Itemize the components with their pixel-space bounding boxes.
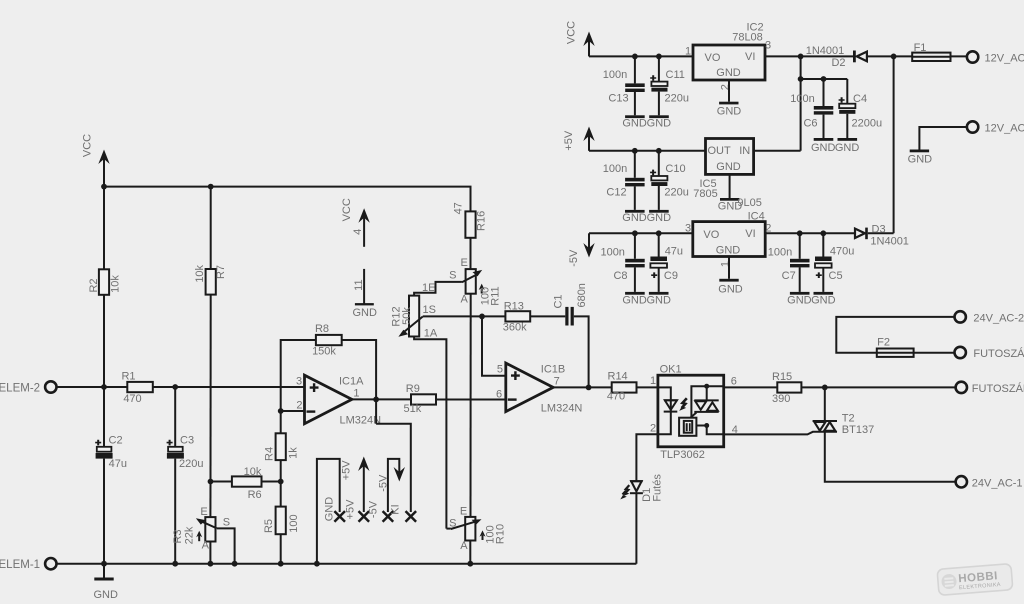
svg-text:R16: R16 (476, 211, 488, 231)
potentiometer R12 50k (391, 282, 483, 529)
node C6 (821, 76, 827, 82)
svg-text:GND: GND (811, 294, 836, 306)
wire R11 A down to R10 E (470, 294, 472, 517)
svg-text:-5V: -5V (568, 249, 580, 267)
svg-text:GND: GND (647, 212, 672, 224)
svg-text:5: 5 (497, 364, 503, 376)
terminal ELEM-1 (0, 558, 57, 571)
svg-text:+5V: +5V (341, 460, 353, 481)
resistor R6 10k (211, 466, 281, 501)
node IC1A output (373, 397, 379, 403)
svg-text:VO: VO (703, 229, 719, 241)
svg-text:VCC: VCC (566, 21, 578, 44)
svg-text:7805: 7805 (693, 188, 717, 200)
svg-text:ELEM-1: ELEM-1 (0, 559, 40, 571)
resistor R7 10k (194, 187, 227, 482)
svg-text:A: A (202, 540, 210, 552)
svg-text:R2: R2 (88, 278, 100, 292)
regulator IC4 79L05 (685, 210, 771, 267)
svg-text:-5V: -5V (377, 474, 389, 492)
svg-text:GND: GND (716, 245, 741, 257)
ground pin11 of IC1 (352, 269, 377, 319)
OK1 internal light arrow (679, 398, 687, 411)
node C2 bottom (101, 561, 107, 567)
svg-text:360k: 360k (503, 322, 527, 334)
svg-text:GND: GND (93, 589, 118, 601)
capacitor C8 100n (600, 233, 644, 292)
node C8 junction (632, 230, 638, 236)
svg-text:F1: F1 (914, 42, 927, 54)
svg-text:GND: GND (352, 307, 377, 319)
power arrow +5V test (341, 457, 370, 513)
svg-text:10k: 10k (110, 275, 122, 293)
svg-text:22k: 22k (184, 526, 196, 544)
power arrow -5V test (377, 459, 405, 512)
svg-text:IC1A: IC1A (339, 375, 364, 387)
op-amp IC1A LM324N (296, 375, 381, 426)
svg-text:1: 1 (353, 387, 359, 399)
wire junction to R3 E (209, 482, 211, 518)
svg-text:220u: 220u (179, 458, 203, 470)
svg-text:GND: GND (811, 142, 836, 154)
svg-text:100n: 100n (790, 93, 814, 105)
node C5 junction (820, 230, 826, 236)
svg-text:IC1B: IC1B (541, 364, 565, 376)
terminal 12V_AC-1 (967, 121, 1024, 134)
svg-text:1A: 1A (424, 328, 438, 340)
svg-text:C11: C11 (666, 69, 685, 81)
svg-text:390: 390 (772, 393, 790, 405)
trimmer R3 22k (172, 506, 235, 564)
capacitor C11 220u (650, 56, 689, 115)
svg-text:VCC: VCC (341, 198, 353, 221)
ground below C11 (647, 115, 672, 129)
wire IC1A pin2 stub (281, 410, 305, 412)
svg-text:S: S (449, 517, 456, 529)
wire IC5 IN to +12V rail (754, 150, 801, 152)
regulator IC2 78L08 (685, 22, 771, 91)
svg-text:ELEM-2: ELEM-2 (0, 383, 40, 395)
svg-text:24V_AC-1: 24V_AC-1 (972, 477, 1023, 489)
ground below C9 (646, 292, 671, 307)
wire IC1B output (553, 386, 612, 388)
svg-text:D3: D3 (872, 224, 886, 236)
svg-text:24V_AC-2: 24V_AC-2 (973, 312, 1024, 324)
capacitor C3 220u (167, 387, 204, 564)
diode D3 1N4001 (855, 224, 909, 248)
wire D3 up to 12V node (893, 56, 895, 233)
terminal FUTOSZAL-1 (956, 382, 1024, 395)
svg-text:C2: C2 (109, 435, 123, 447)
svg-text:C9: C9 (664, 270, 678, 282)
node D2-F1 junction (891, 54, 897, 60)
node R12 wiper / R13 junction (479, 314, 485, 320)
svg-text:GND: GND (622, 294, 647, 306)
svg-text:A: A (461, 293, 469, 305)
svg-text:GND: GND (908, 153, 933, 165)
capacitor C5 470u (reversed electrolytic) (815, 233, 854, 292)
node R3 S (232, 561, 238, 567)
net +5V (power arrow) (563, 127, 595, 151)
svg-text:6: 6 (496, 389, 502, 401)
ground IC4 pin1 (718, 257, 743, 296)
svg-text:R5: R5 (263, 519, 275, 533)
node C11 junction (656, 54, 662, 60)
svg-text:FUTOSZÁL: FUTOSZÁL (972, 382, 1024, 395)
svg-text:R3: R3 (172, 529, 184, 543)
net -5V (power arrow down) (568, 233, 595, 266)
trimmer R11 100 (414, 257, 501, 305)
svg-text:50k: 50k (401, 307, 413, 325)
svg-text:R6: R6 (248, 489, 262, 501)
resistor R16 47 (453, 202, 488, 269)
power VCC pin4 of IC1 (341, 198, 370, 247)
svg-text:+5V: +5V (563, 130, 575, 151)
ground below C13 (622, 115, 647, 129)
wire VCC rail to IC2 (589, 55, 693, 57)
svg-text:D2: D2 (831, 57, 845, 69)
node GND bracket (314, 561, 320, 567)
svg-text:GND: GND (787, 294, 812, 306)
resistor R13 360k (482, 300, 565, 333)
wire junction down to IC1B pin5 (482, 316, 506, 375)
ground below C8 (622, 292, 647, 307)
svg-text:1k: 1k (288, 447, 300, 459)
svg-text:12V_AC-1: 12V_AC-1 (985, 123, 1024, 135)
svg-text:C10: C10 (665, 163, 685, 175)
regulator IC5 7805 (693, 139, 753, 200)
svg-text:220u: 220u (664, 187, 688, 199)
wire KI tap from output (376, 424, 411, 512)
svg-text:IC4: IC4 (748, 210, 765, 222)
svg-text:E: E (460, 506, 467, 518)
svg-text:100n: 100n (600, 246, 624, 258)
wire IC2 pin3 to D2 (765, 55, 853, 57)
OK1 internal LED (658, 387, 677, 434)
no-connect X +5V (344, 499, 369, 522)
svg-text:2200u: 2200u (852, 117, 883, 129)
svg-text:C13: C13 (608, 92, 628, 104)
svg-text:VI: VI (745, 228, 755, 240)
wire ELEM-2 row (57, 386, 128, 388)
svg-text:C1: C1 (553, 294, 565, 308)
svg-text:6: 6 (731, 376, 737, 388)
net VCC (power arrow top-left) (82, 134, 110, 187)
svg-text:E: E (461, 257, 468, 269)
node C7 junction (797, 230, 803, 236)
svg-text:C3: C3 (180, 435, 194, 447)
terminal ELEM-2 (0, 381, 57, 394)
capacitor C2 47u (95, 387, 127, 564)
svg-text:R13: R13 (504, 300, 524, 312)
svg-text:47u: 47u (665, 246, 683, 258)
svg-text:100n: 100n (603, 69, 627, 81)
svg-text:R8: R8 (315, 323, 329, 335)
LED D1 Futes (620, 474, 663, 564)
svg-text:R7: R7 (215, 265, 227, 279)
svg-text:A: A (460, 540, 468, 552)
resistor R8 150k (feedback) (281, 323, 376, 424)
wire OK1 pin2 to D1 (636, 434, 658, 481)
svg-text:S: S (449, 270, 456, 282)
no-connect X GND (323, 497, 345, 522)
node R7/R6/R3 junction (208, 479, 214, 485)
svg-text:VO: VO (705, 52, 721, 64)
svg-text:GND: GND (716, 67, 741, 79)
svg-text:470: 470 (123, 393, 141, 405)
svg-text:3: 3 (685, 222, 691, 234)
svg-text:47u: 47u (109, 458, 127, 470)
svg-text:Futés: Futés (652, 474, 664, 502)
op-amp IC1B LM324N (496, 363, 582, 414)
svg-text:100: 100 (288, 514, 300, 532)
optocoupler OK1 TLP3062 (650, 364, 738, 461)
svg-text:4: 4 (352, 229, 364, 235)
svg-text:GND: GND (717, 105, 742, 117)
terminal 12V_AC-2 (967, 51, 1024, 64)
svg-text:OUT: OUT (708, 145, 732, 157)
capacitor C7 100n (768, 233, 810, 292)
wire OK1 pin4 to T2 gate (724, 432, 813, 435)
node R4/R5/R6 junction (278, 479, 284, 485)
svg-text:GND: GND (716, 161, 741, 173)
resistor R14 470 (607, 371, 658, 403)
svg-text:E: E (200, 506, 207, 518)
svg-text:10k: 10k (194, 264, 206, 282)
triac T2 BT137 (812, 387, 955, 481)
svg-text:11: 11 (353, 279, 365, 290)
wire -5V rail to IC4 (589, 232, 693, 234)
capacitor C12 100n (603, 151, 645, 210)
node R10 A (467, 561, 473, 567)
terminal FUTOSZAL-2 (955, 347, 1024, 360)
resistor R5 100 (263, 482, 300, 564)
svg-text:100n: 100n (603, 163, 627, 175)
svg-text:R11: R11 (490, 286, 502, 305)
node C1/output junction (586, 385, 592, 391)
svg-text:R15: R15 (772, 371, 792, 383)
svg-text:78L08: 78L08 (732, 32, 763, 44)
svg-text:R4: R4 (263, 447, 275, 461)
svg-text:220u: 220u (665, 92, 689, 104)
svg-text:OK1: OK1 (660, 364, 682, 376)
no-connect X KI (389, 504, 416, 521)
svg-text:3: 3 (765, 40, 771, 52)
svg-text:GND: GND (647, 117, 672, 129)
svg-text:LM324N: LM324N (541, 402, 583, 414)
svg-text:C12: C12 (606, 187, 626, 199)
wire VCC top rail (104, 187, 471, 212)
capacitor C4 2200u (839, 79, 882, 138)
svg-text:R14: R14 (608, 371, 628, 383)
svg-text:C6: C6 (803, 117, 817, 129)
node R5 bottom (278, 561, 284, 567)
node C6/C4 branch (798, 76, 804, 82)
fuse F2 (877, 337, 955, 357)
wire 24V_AC-2 bracket to F2 (836, 317, 954, 353)
svg-text:BT137: BT137 (842, 424, 874, 436)
node R15/T2 junction (822, 385, 828, 391)
svg-text:R1: R1 (121, 370, 135, 382)
ground below C10 (647, 210, 672, 224)
ground below C4 (835, 138, 860, 154)
resistor R15 390 (772, 371, 956, 405)
node IC2 out / C6C4 branch (798, 54, 804, 60)
svg-text:12V_AC-2: 12V_AC-2 (985, 53, 1024, 65)
diode D2 1N4001 (806, 45, 912, 69)
svg-text:C4: C4 (853, 93, 867, 105)
svg-text:GND: GND (622, 117, 647, 129)
node R1/C3 (172, 384, 178, 390)
node IC1A inverting input (278, 408, 284, 414)
svg-text:VCC: VCC (82, 134, 94, 157)
trimmer R10 100 (446, 506, 506, 564)
svg-text:10k: 10k (244, 466, 262, 478)
svg-text:TLP3062: TLP3062 (660, 449, 705, 461)
wire IC1A output row (352, 398, 411, 400)
node C13 junction (632, 54, 638, 60)
svg-text:S: S (223, 517, 230, 529)
svg-text:1: 1 (650, 375, 656, 387)
no-connect X -5V (368, 500, 394, 521)
wire OK1 pin6 to R15 (724, 386, 778, 388)
resistor R4 1k (263, 411, 299, 482)
OK1 internal zero-cross block (679, 418, 724, 436)
svg-text:-5V: -5V (368, 500, 380, 518)
node VCC/R2 (101, 184, 107, 190)
svg-text:KI: KI (389, 504, 401, 514)
capacitor C6 100n (790, 79, 833, 138)
ground at 12V_AC-1 (908, 150, 933, 166)
svg-text:1S: 1S (422, 304, 435, 316)
svg-text:100n: 100n (768, 246, 792, 258)
node C12 junction (632, 148, 638, 154)
svg-text:47: 47 (453, 202, 465, 214)
svg-text:150k: 150k (312, 346, 336, 358)
svg-text:1N4001: 1N4001 (870, 236, 909, 248)
watermark logo (937, 564, 1013, 596)
svg-text:C5: C5 (829, 270, 843, 282)
OK1 internal photo-triac (690, 384, 723, 418)
svg-text:IN: IN (739, 145, 750, 157)
node ELEM-2/R2/C2 (101, 384, 107, 390)
svg-text:GND: GND (718, 284, 743, 296)
svg-text:2: 2 (296, 400, 302, 412)
ground IC5 pin2 (718, 174, 762, 212)
svg-text:R10: R10 (495, 524, 507, 544)
svg-text:1E: 1E (422, 282, 435, 294)
wire 12V_AC-1 to ground (919, 127, 967, 150)
svg-text:C8: C8 (613, 270, 627, 282)
resistor R1 470 (121, 370, 304, 405)
wire branch to C4 (801, 78, 848, 80)
ground below C6 (811, 138, 836, 154)
node C10 junction (656, 148, 662, 154)
wire GND bracket (317, 459, 340, 564)
svg-text:F2: F2 (877, 337, 890, 349)
capacitor C10 220u (650, 151, 689, 210)
svg-text:GND: GND (835, 142, 860, 154)
svg-text:FUTOSZÁL: FUTOSZÁL (973, 347, 1024, 360)
svg-text:51k: 51k (404, 403, 422, 415)
svg-text:GND: GND (718, 200, 743, 212)
node C3 bottom (172, 561, 178, 567)
capacitor C9 47u (reversed electrolytic) (650, 233, 683, 292)
node R3 A (208, 561, 214, 567)
capacitor C13 100n (603, 56, 645, 115)
wire D2 node down to 7805 IN (800, 56, 802, 150)
terminal 24V_AC-2 (955, 311, 1024, 324)
svg-text:VI: VI (745, 51, 755, 63)
resistor R2 10k (88, 187, 122, 387)
ground below C5 (811, 292, 836, 307)
node R7 top (208, 184, 214, 190)
ground bottom-left (93, 564, 118, 601)
svg-text:7: 7 (554, 375, 560, 387)
svg-text:R9: R9 (406, 383, 420, 395)
svg-text:1: 1 (685, 46, 691, 58)
wire ELEM-1 bottom rail (57, 563, 637, 565)
net VCC (power arrow top of supply) (566, 21, 595, 57)
svg-text:C7: C7 (782, 270, 796, 282)
svg-text:T2: T2 (842, 413, 855, 425)
svg-text:470: 470 (607, 391, 625, 403)
svg-text:2: 2 (650, 422, 656, 434)
svg-text:3: 3 (296, 375, 302, 387)
svg-text:+5V: +5V (344, 499, 356, 520)
ground IC2 pin2 (717, 80, 742, 117)
svg-text:LM324N: LM324N (340, 414, 382, 426)
ground below C12 (622, 210, 647, 224)
node C9 junction (656, 230, 662, 236)
terminal 24V_AC-1 (956, 476, 1023, 489)
wire IC4 pin2 to D3 (765, 232, 855, 234)
svg-text:1N4001: 1N4001 (806, 45, 845, 57)
capacitor C1 680n (553, 283, 589, 387)
fuse F1 (912, 42, 967, 61)
svg-text:680n: 680n (576, 283, 588, 307)
svg-text:470u: 470u (830, 246, 854, 258)
svg-text:GND: GND (323, 497, 335, 522)
ground below C7 (787, 292, 812, 307)
wire +5V rail to IC5 (589, 150, 706, 152)
svg-text:GND: GND (646, 294, 671, 306)
svg-text:GND: GND (622, 212, 647, 224)
resistor R9 51k (404, 383, 506, 415)
